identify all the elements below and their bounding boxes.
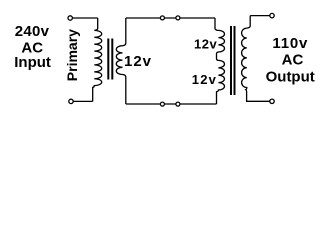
svg-text:Input: Input bbox=[14, 54, 51, 71]
svg-text:12v: 12v bbox=[194, 37, 217, 52]
transformer T1 core bbox=[107, 39, 113, 80]
wire top link bbox=[126, 17, 215, 19]
terminal bottom-left bbox=[69, 99, 73, 103]
svg-text:AC: AC bbox=[282, 52, 304, 69]
wire bottom-left terminal to primary bbox=[73, 100, 92, 102]
svg-text:12v: 12v bbox=[124, 53, 152, 70]
wire bottom link bbox=[126, 103, 217, 105]
connector bottom circle A bbox=[160, 102, 164, 106]
wire to top-right terminal bbox=[250, 15, 269, 17]
transformer T2 core bbox=[230, 26, 236, 95]
label 110v AC Output bbox=[266, 35, 315, 86]
transformer T1 primary winding bbox=[93, 18, 102, 101]
wire to bottom-right terminal bbox=[246, 100, 270, 102]
connector bottom circle B bbox=[176, 102, 180, 106]
svg-text:Primary: Primary bbox=[64, 29, 80, 81]
connector top circle A bbox=[160, 16, 164, 20]
wire top-left terminal to primary bbox=[73, 17, 98, 19]
terminal bottom-right bbox=[270, 99, 274, 103]
connector top circle B bbox=[176, 16, 180, 20]
svg-text:12v: 12v bbox=[192, 72, 217, 87]
label 240v AC Input bbox=[14, 23, 51, 71]
svg-text:Output: Output bbox=[266, 68, 315, 85]
transformer T1 secondary winding 12v bbox=[116, 18, 126, 104]
svg-text:110v: 110v bbox=[272, 35, 308, 52]
transformer T2 secondary winding bbox=[242, 16, 251, 102]
transformer T2 first 12v winding bbox=[215, 18, 224, 104]
terminal top-right bbox=[270, 13, 274, 17]
svg-text:240v: 240v bbox=[15, 23, 50, 40]
terminal top-left bbox=[68, 16, 72, 20]
